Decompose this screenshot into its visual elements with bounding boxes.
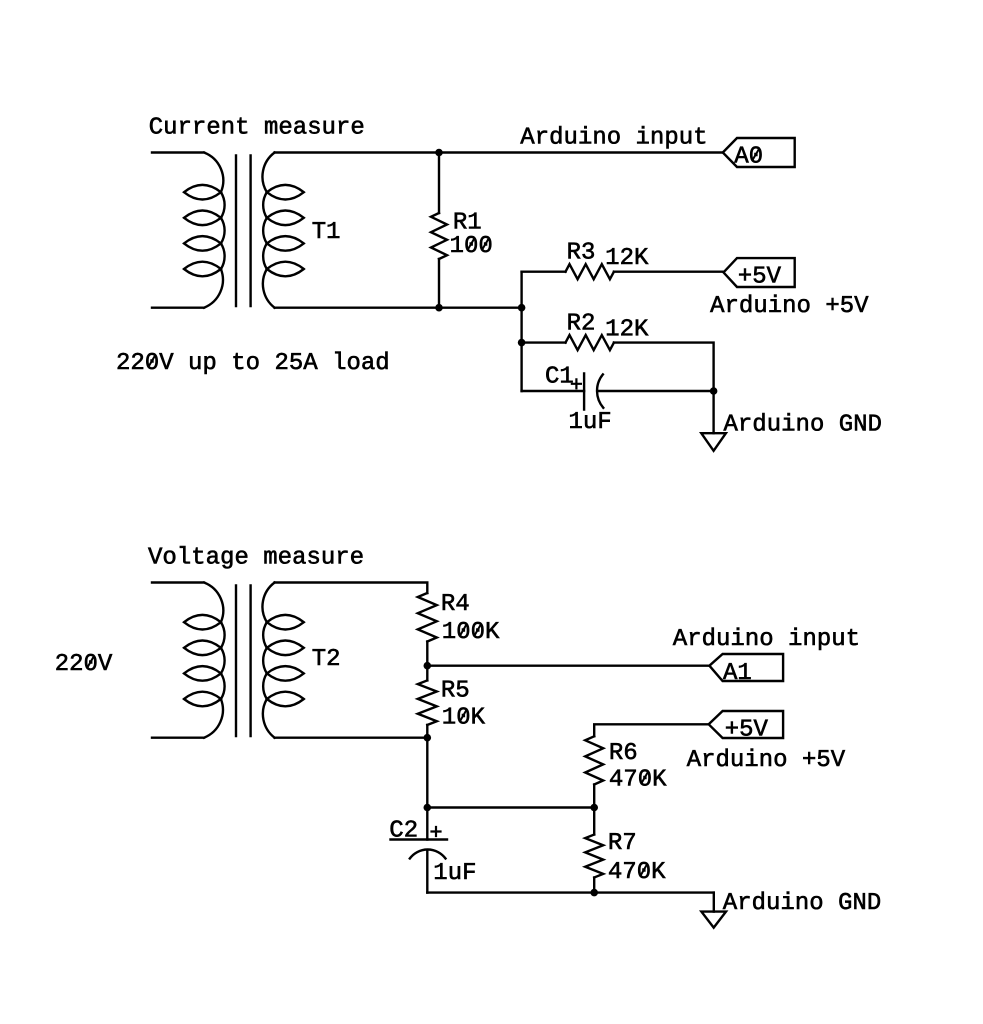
label Arduino +5V (top): [710, 295, 868, 313]
pin tag +5V (top): [724, 258, 795, 287]
wire node to A1 tag: [427, 665, 709, 667]
label R4: [443, 594, 469, 610]
value 12K (R3): [607, 248, 649, 264]
wire C2 to bottom rail: [426, 850, 428, 893]
wire R3 branch left: [522, 271, 566, 273]
label R2: [569, 313, 594, 329]
label 220V up to 25A load: [118, 352, 388, 374]
pin tag +5V (bottom): [709, 711, 783, 738]
capacitor C1: [584, 374, 603, 410]
transformer T2 core: [236, 586, 251, 737]
label Current measure: [150, 117, 363, 133]
ground symbol (top): [701, 433, 726, 451]
capacitor C2: [391, 840, 448, 859]
label R1: [455, 213, 481, 229]
label Arduino GND (top): [724, 413, 881, 431]
label T1: [313, 222, 340, 238]
value 470K (R7): [609, 862, 665, 878]
pin name +5V (top): [739, 267, 781, 283]
value 100: [451, 236, 491, 252]
node R4/R5/A1 junction: [424, 662, 432, 670]
transformer T2 left winding: [152, 583, 225, 738]
label C1: [546, 366, 572, 382]
pin tag A1: [709, 654, 783, 681]
label 220V: [56, 654, 112, 670]
label R5: [443, 681, 468, 697]
node C1/R2/GND junction: [710, 387, 718, 395]
slashed zeros overlay: [87, 148, 759, 876]
label Voltage measure: [148, 546, 362, 568]
pin name +5V (bottom): [726, 720, 768, 736]
label Arduino +5V (bottom): [687, 749, 845, 767]
wire node to R7: [593, 808, 595, 835]
node R2 takeoff: [518, 339, 526, 347]
label R6: [611, 743, 636, 759]
wire +5V tag to R6: [594, 724, 709, 736]
pin name A0: [734, 146, 761, 162]
wire C1 left: [522, 390, 585, 392]
pin name A1: [723, 663, 751, 679]
transformer T1 core: [236, 156, 251, 307]
wire R5 to bottom node: [426, 725, 428, 738]
transformer T1 right winding: [262, 153, 303, 308]
value 470K (R6): [610, 769, 666, 785]
node A0/R1 junction: [435, 149, 443, 157]
wire T2 secondary top to R4: [275, 583, 428, 594]
label Arduino input (top): [520, 126, 705, 148]
label R7: [610, 833, 635, 849]
wire stem to GND (bottom): [713, 893, 715, 912]
resistor R2: [566, 335, 614, 350]
ground symbol (bottom): [701, 912, 726, 928]
wire R2 right + down: [614, 343, 714, 391]
value 12K (R2): [607, 319, 649, 335]
resistor R6: [585, 736, 603, 784]
transformer T1 left winding: [152, 153, 225, 308]
label Arduino input (bottom): [673, 628, 858, 650]
label C2: [391, 820, 417, 836]
label R3: [569, 242, 594, 258]
wire C1 right: [598, 390, 714, 392]
node R7/bottom-rail junction: [590, 889, 598, 897]
wire R6 to node: [593, 785, 595, 808]
wire stem to GND (top): [712, 391, 714, 433]
wire down to C2: [426, 738, 428, 840]
value 100K: [444, 622, 500, 638]
wire R3 to +5V tag: [614, 271, 724, 273]
wire R7 to bottom rail: [593, 878, 595, 893]
label Arduino GND (bottom): [723, 892, 880, 910]
node R1/bottom-rail junction: [435, 304, 443, 312]
node bottom-rail/vertical junction: [518, 304, 526, 312]
value 1uF (C2): [435, 863, 475, 879]
node C2 top junction: [424, 804, 432, 812]
wire junction to R6/R7 node: [427, 806, 594, 808]
wire T2 secondary bottom: [275, 737, 428, 739]
C2 plus sign: [432, 827, 441, 836]
wire junction vertical x=521.6: [520, 272, 522, 391]
resistor R3: [566, 264, 614, 279]
value 10K: [444, 707, 486, 723]
wire node to R5: [426, 666, 428, 681]
node R5/T2-bottom junction: [424, 734, 432, 742]
resistor R1: [438, 153, 440, 214]
bottom rail wire: [427, 891, 714, 893]
C1 plus sign: [572, 379, 581, 388]
label T2: [313, 649, 339, 665]
node R6/R7 junction: [590, 804, 598, 812]
pin tag A0: [723, 138, 795, 167]
wire T1 secondary bottom: [275, 307, 522, 309]
wire R4 to node: [426, 642, 428, 666]
resistor R5: [418, 680, 437, 725]
transformer T2 right winding: [262, 583, 303, 738]
wire T1 secondary top to A0 tag: [275, 151, 723, 153]
resistor R7: [585, 835, 603, 878]
value 1uF (C1): [570, 412, 610, 428]
resistor R4: [418, 593, 437, 642]
wire R2 branch left: [522, 341, 566, 343]
